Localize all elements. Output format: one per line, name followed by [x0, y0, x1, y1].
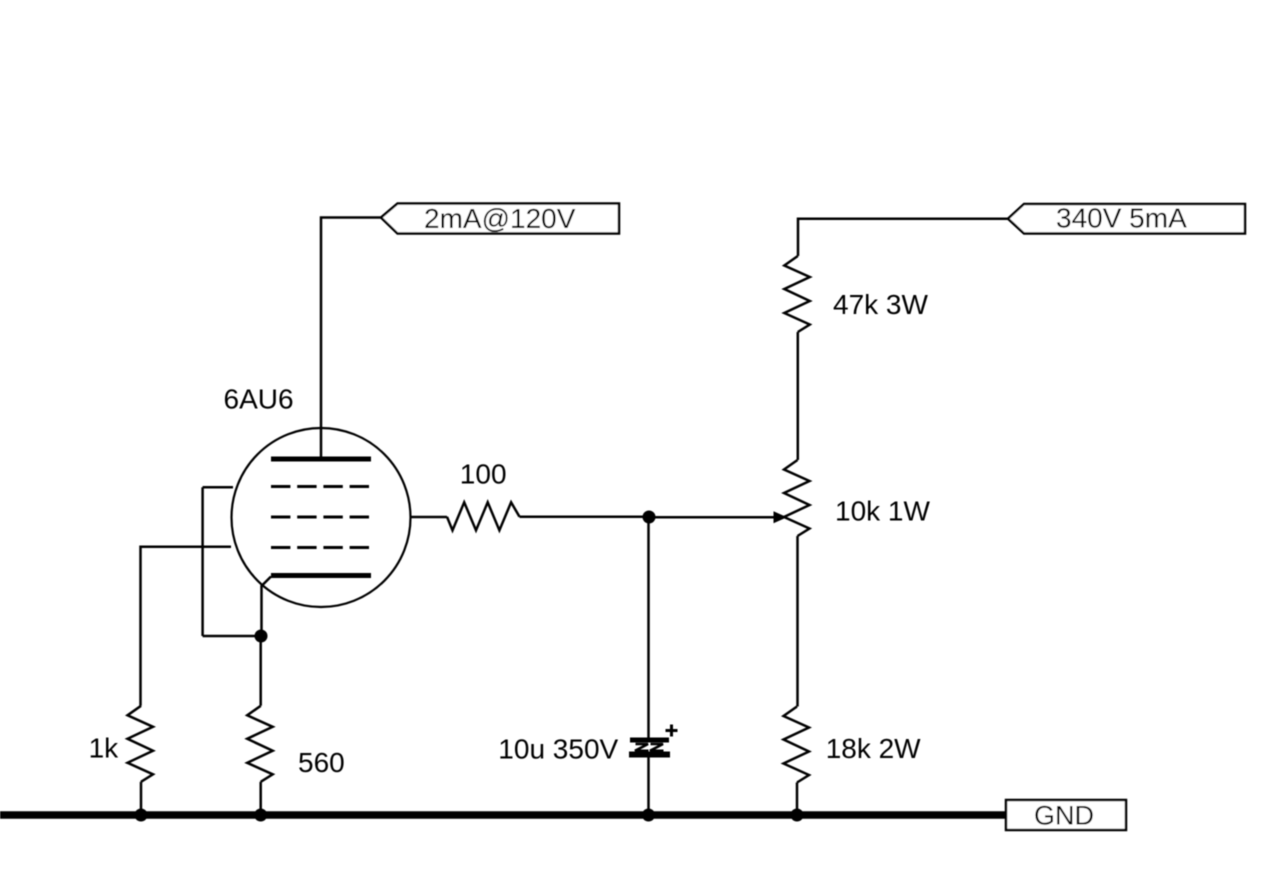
- resistor R1 100 (horizontal zigzag): [447, 502, 520, 530]
- wire: 47k bottom to 10k top: [797, 332, 800, 460]
- svg-text:340V 5mA: 340V 5mA: [1056, 203, 1187, 234]
- wire: grid 3 stub left and down to 1k: [141, 547, 232, 706]
- junction dot 1k at bus: [135, 809, 148, 822]
- power flag 2mA@120V: [381, 204, 619, 234]
- svg-text:1k: 1k: [89, 732, 120, 763]
- tube U1 grid 2 (dashed): [271, 516, 371, 519]
- wire: grid 1 stub to left rail: [203, 486, 233, 489]
- svg-text:47k 3W: 47k 3W: [833, 289, 928, 320]
- wire: cathode lead down to node: [262, 577, 272, 637]
- node A junction dot (100/cap/pot): [643, 511, 656, 524]
- wire: 340V flag to top of 47k: [798, 219, 1008, 256]
- junction dot 560 at bus: [254, 809, 267, 822]
- svg-text:10k 1W: 10k 1W: [835, 496, 930, 527]
- wire: 100 resistor to node A: [520, 516, 650, 519]
- ground flag GND box: [1006, 800, 1126, 830]
- wire: node A down to capacitor: [647, 517, 650, 738]
- capacitor C1 polarity plus sign: [666, 725, 678, 737]
- resistor R5 1k (vertical zigzag): [128, 706, 154, 782]
- resistor R2 47k 3W (vertical zigzag): [784, 256, 810, 332]
- tube U1 cathode bar: [271, 573, 371, 578]
- wire: capacitor to ground bus: [647, 757, 650, 815]
- tube U1 grid 1 (dashed): [271, 485, 371, 488]
- capacitor C1 top plate: [630, 738, 669, 743]
- tube U1 plate bar: [271, 457, 371, 462]
- potentiometer R3 10k 1W (vertical zigzag): [784, 460, 810, 536]
- power flag 340V 5mA: [1008, 204, 1245, 234]
- svg-text:100: 100: [460, 459, 507, 490]
- capacitor C1 hatched plate Z marks: [635, 744, 664, 751]
- wire: cathode node down to 560: [259, 636, 262, 706]
- svg-text:6AU6: 6AU6: [224, 383, 294, 414]
- resistor R4 18k 2W (vertical zigzag): [784, 707, 810, 783]
- capacitor C1 bottom plate: [629, 752, 670, 758]
- wire: 18k bottom to ground bus: [796, 783, 799, 816]
- potentiometer wiper arrowhead: [774, 511, 788, 523]
- wire: 10k bottom to 18k top: [796, 536, 799, 707]
- wire: left vertical rail: [201, 487, 204, 636]
- wire: 1k bottom to ground bus: [140, 782, 143, 815]
- wire: plate lead up from tube to flag: [321, 218, 381, 460]
- junction dot capacitor at bus: [642, 809, 655, 822]
- ground bus (thick GND rail): [0, 811, 1012, 819]
- svg-text:10u 350V: 10u 350V: [498, 734, 618, 765]
- wire: tube screen grid out to 100 resistor: [412, 516, 448, 519]
- svg-text:GND: GND: [1034, 801, 1094, 831]
- svg-text:2mA@120V: 2mA@120V: [424, 203, 576, 234]
- svg-text:560: 560: [298, 747, 345, 778]
- wire: 560 bottom to ground bus: [259, 782, 262, 815]
- wire: rail bottom to cathode node: [203, 635, 261, 638]
- tube U1 6AU6 envelope circle: [232, 428, 411, 607]
- svg-text:18k 2W: 18k 2W: [826, 733, 921, 764]
- tube U1 grid 3 (dashed): [271, 546, 371, 549]
- resistor R6 560 (vertical zigzag): [247, 706, 273, 782]
- junction dot 18k at bus: [791, 809, 804, 822]
- wire: node A to pot wiper arrow: [649, 516, 774, 519]
- node cathode junction dot: [255, 630, 268, 643]
